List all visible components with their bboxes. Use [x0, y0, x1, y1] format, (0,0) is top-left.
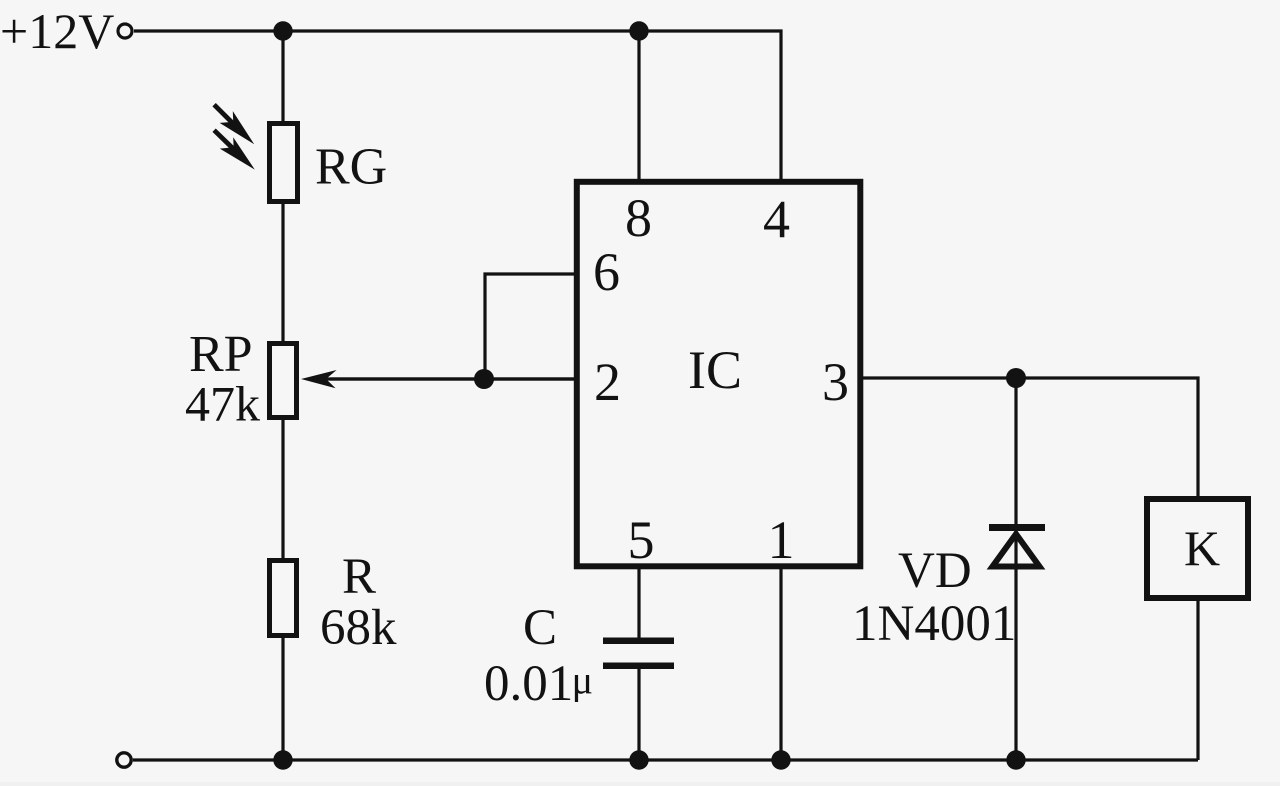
- svg-text:4: 4: [763, 190, 790, 250]
- svg-text:3: 3: [822, 352, 849, 412]
- svg-text:0.01: 0.01: [484, 656, 573, 712]
- svg-text:6: 6: [593, 242, 620, 302]
- svg-text:8: 8: [625, 188, 652, 248]
- svg-text:R: R: [342, 549, 376, 605]
- svg-text:RG: RG: [315, 139, 387, 196]
- svg-text:IC: IC: [688, 340, 742, 400]
- svg-text:47k: 47k: [185, 376, 260, 432]
- svg-text:2: 2: [594, 352, 621, 412]
- svg-text:1: 1: [768, 510, 795, 570]
- svg-text:68k: 68k: [320, 600, 397, 656]
- svg-text:+12V: +12V: [0, 3, 114, 59]
- svg-text:VD: VD: [898, 543, 972, 599]
- svg-text:5: 5: [628, 510, 655, 570]
- svg-text:C: C: [523, 600, 557, 656]
- svg-text:K: K: [1184, 520, 1220, 576]
- svg-text:RP: RP: [189, 326, 253, 383]
- svg-text:1N4001: 1N4001: [852, 596, 1016, 652]
